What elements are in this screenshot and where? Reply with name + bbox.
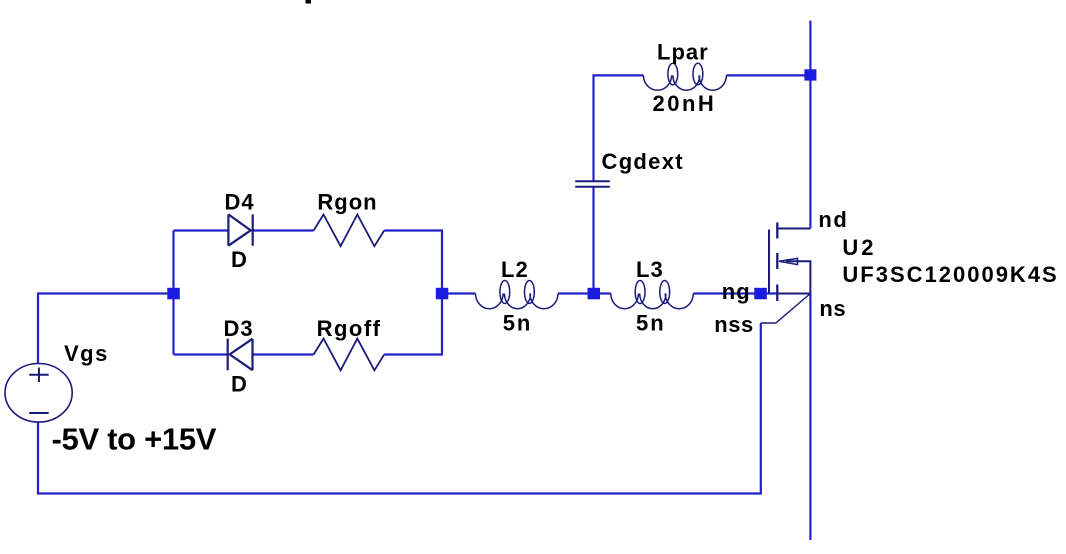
inductor Lpar coil [643, 63, 726, 90]
MOSFET U2 source lead [777, 293, 810, 295]
svg-text:Rgoff: Rgoff [317, 316, 382, 341]
wire node B to inductor L2 [442, 292, 476, 294]
wire L3 to gate node E [693, 292, 777, 294]
wire node C to inductor L3 [594, 292, 611, 294]
wire Rgoff to right corner up to node B [384, 294, 442, 355]
wire nss vertical down to bottom return [38, 323, 761, 494]
junction node A [167, 288, 180, 300]
junction node C [588, 288, 601, 300]
svg-text:D: D [231, 247, 248, 272]
diode D4 symbol [228, 214, 252, 245]
svg-text:U2: U2 [842, 235, 876, 260]
stray text descender top edge [306, 0, 312, 4]
MOSFET U2 body arrowhead [779, 258, 798, 264]
wire top branch to diode D4 anode [174, 229, 229, 231]
svg-text:ns: ns [819, 296, 846, 321]
wire Lpar to drain node D [726, 74, 810, 76]
capacitor Cgdext plates [575, 181, 610, 187]
junction node D (drain) [804, 69, 816, 80]
svg-text:Vgs: Vgs [64, 341, 109, 366]
svg-text:Rgon: Rgon [317, 190, 377, 215]
voltage source V1 circle (Vgs) [5, 364, 72, 423]
MOSFET U2 source-sense diagonal and jog [761, 294, 811, 324]
svg-text:-5V to +15V: -5V to +15V [52, 422, 217, 457]
svg-text:D3: D3 [224, 316, 254, 341]
svg-text:D4: D4 [225, 190, 255, 215]
inductor L2 coil [476, 281, 559, 309]
wire source rail down [809, 294, 811, 541]
svg-text:D: D [231, 372, 248, 397]
wire D3 to Rgoff [253, 353, 314, 355]
wire D4 cathode to Rgon [253, 229, 314, 231]
svg-text:ng: ng [722, 279, 751, 304]
svg-text:nss: nss [714, 312, 753, 337]
svg-text:Cgdext: Cgdext [602, 149, 684, 174]
voltage source minus sign [29, 412, 49, 414]
wire bottom branch to diode D3 [174, 353, 228, 355]
MOSFET U2 drain lead [777, 228, 810, 230]
voltage source plus sign [29, 368, 49, 383]
svg-text:L2: L2 [501, 257, 529, 282]
diode D3 symbol [228, 339, 253, 371]
MOSFET U2 channel bars [776, 223, 778, 302]
MOSFET U2 gate plate [768, 230, 770, 294]
svg-text:20nH: 20nH [653, 91, 717, 116]
wire L2 to node C [558, 292, 594, 294]
junction node B [436, 288, 449, 300]
svg-text:L3: L3 [636, 257, 664, 282]
wire capacitor top up and right to Lpar [594, 75, 644, 181]
wire drain rail vertical [809, 21, 811, 229]
MOSFET U2 body lead with arrow [786, 261, 810, 293]
wire left branch vertical (node A) [172, 231, 174, 355]
svg-text:Lpar: Lpar [657, 40, 709, 65]
junction node E (gate) [754, 288, 767, 300]
svg-text:5n: 5n [503, 311, 533, 336]
wire Rgon to right corner down to node B [384, 231, 442, 294]
wire Vgs top to left junction [38, 294, 174, 365]
svg-text:UF3SC120009K4S: UF3SC120009K4S [842, 262, 1058, 287]
inductor L3 coil [611, 281, 694, 309]
wire node C up to capacitor Cgdext [592, 187, 594, 294]
svg-text:5n: 5n [636, 311, 666, 336]
resistor Rgoff zigzag [314, 339, 385, 371]
svg-text:nd: nd [818, 207, 848, 232]
resistor Rgon zigzag [314, 215, 385, 247]
